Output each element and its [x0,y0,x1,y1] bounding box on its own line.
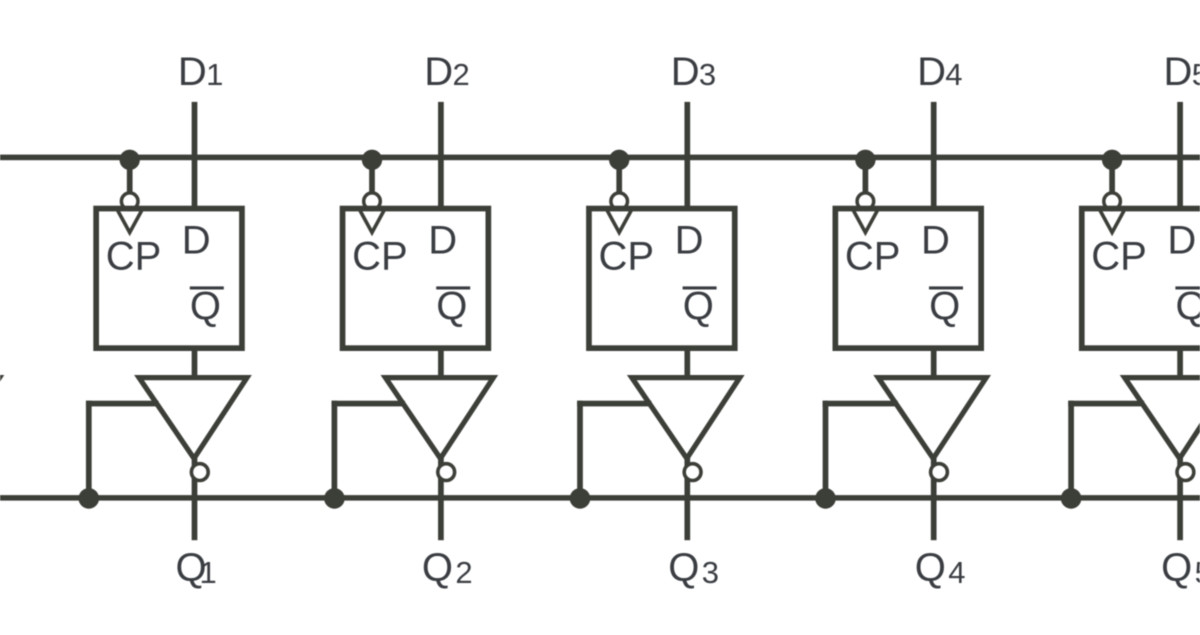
wire: U3 Qbar output to inverter [684,348,690,380]
inversion bubble on U3 clock input [611,193,628,210]
svg-text:3: 3 [702,555,719,590]
wire: D3 input vertical [684,102,690,210]
svg-text:CP: CP [352,235,408,279]
wire: feedback horizontal into inverter U2A [332,401,405,407]
edge-trigger wedge on U2 clock pin [360,211,384,233]
svg-text:D: D [428,218,457,262]
flip-flop U2 box [343,209,489,349]
svg-text:D: D [1164,50,1193,94]
inversion bubble on inverter U4A output [931,464,948,481]
wire: inverter U1A output vertical [192,456,198,540]
wire: CP2 stub from clock bus [369,157,375,192]
svg-text:Q: Q [1161,546,1192,590]
inverter U3A triangle [632,378,740,459]
inverter U4A triangle [878,378,986,459]
svg-text:CP: CP [599,235,655,279]
wire: CP3 stub from clock bus [616,157,622,192]
flip-flop U1 box [96,209,242,349]
edge-trigger wedge on U1 clock pin [118,211,142,233]
wire: CP clock bus (top horizontal) [0,155,1200,161]
svg-text:1: 1 [200,555,217,590]
junction on output bus at feedback 1 [79,488,100,509]
svg-text:D: D [182,218,211,262]
wire: D4 input vertical [931,102,937,210]
svg-text:D: D [671,50,700,94]
svg-text:CP: CP [106,235,162,279]
inversion bubble on U1 clock input [121,193,138,210]
junction on clock bus at CP4 [855,150,875,170]
wire: CP4 stub from clock bus [863,157,869,192]
junction on output bus at feedback 3 [570,488,591,509]
wire: feedback vertical to output bus [86,401,92,498]
inversion bubble on U2 clock input [364,193,381,210]
wire: CP5 stub from clock bus [1109,157,1115,192]
svg-text:Q: Q [683,285,714,329]
flip-flop U5 box [1082,209,1200,349]
wire: D5 input vertical [1177,102,1183,210]
wire: CP1 stub from clock bus [127,157,133,192]
inversion bubble on inverter U5A output [1177,464,1194,481]
junction on clock bus at CP2 [362,150,382,170]
svg-text:2: 2 [455,555,472,590]
wire: U1 Qbar output to inverter [192,348,198,380]
wire: feedback vertical to output bus [823,401,829,498]
svg-text:Q: Q [929,285,960,329]
wire: D2 input vertical [438,102,444,210]
svg-text:D: D [178,50,207,94]
svg-text:4: 4 [945,57,962,92]
wire: feedback vertical to output bus [1068,401,1074,498]
wire: feedback horizontal into inverter U3A [577,401,651,407]
edge-trigger wedge on U4 clock pin [853,211,877,233]
svg-text:2: 2 [453,57,470,92]
svg-text:3: 3 [699,57,716,92]
svg-text:CP: CP [1091,235,1147,279]
svg-text:Q: Q [1176,285,1200,329]
svg-text:4: 4 [948,555,965,590]
wire: U5 Qbar output to inverter [1177,348,1183,380]
flip-flop U4 box [835,209,981,349]
wire: inverter U2A output vertical [438,456,444,540]
junction on output bus at feedback 4 [815,488,836,509]
wire: inverter U4A output vertical [931,456,937,540]
svg-text:5: 5 [1192,57,1200,92]
wire: U4 Qbar output to inverter [931,348,937,380]
wire: feedback horizontal into inverter U5A [1068,401,1144,407]
wire: U2 Qbar output to inverter [438,348,444,380]
wire: feedback horizontal into inverter U4A [823,401,898,407]
svg-text:D: D [675,218,704,262]
svg-text:D: D [921,218,950,262]
svg-text:1: 1 [206,57,223,92]
svg-text:CP: CP [845,235,901,279]
junction on output bus at feedback 2 [324,488,345,509]
wire: feedback vertical to output bus [577,401,583,498]
inversion bubble on inverter U2A output [438,464,455,481]
svg-text:D: D [917,50,946,94]
svg-text:Q: Q [915,546,946,590]
edge-trigger wedge on U3 clock pin [607,211,631,233]
flip-flop U3 box [589,209,735,349]
svg-text:Q: Q [190,285,221,329]
svg-text:5: 5 [1195,555,1200,590]
svg-text:Q: Q [422,546,453,590]
inversion bubble on inverter U1A output [191,464,208,481]
svg-text:Q: Q [436,285,467,329]
wire: feedback vertical to output bus [332,401,338,498]
wire: feedback horizontal into inverter U1A [86,401,159,407]
svg-text:D: D [1167,218,1196,262]
inversion bubble on U5 clock input [1104,193,1121,210]
svg-text:D: D [424,50,453,94]
inverter U1A triangle [139,378,247,459]
wire: inverter U3A output vertical [684,456,690,540]
junction on clock bus at CP1 [120,150,140,170]
inverter U2A triangle [385,378,493,459]
junction on output bus at feedback 5 [1061,488,1082,509]
wire: inverter U5A output vertical [1177,456,1183,540]
inversion bubble on inverter U3A output [684,464,701,481]
wire: D1 input vertical [192,102,198,210]
svg-text:Q: Q [668,546,699,590]
junction on clock bus at CP5 [1102,150,1122,170]
wire: output bus (bottom horizontal) [0,495,1200,501]
junction on clock bus at CP3 [609,150,629,170]
edge-trigger wedge on U5 clock pin [1100,211,1124,233]
inversion bubble on U4 clock input [857,193,874,210]
inverter U5A triangle [1125,378,1200,459]
